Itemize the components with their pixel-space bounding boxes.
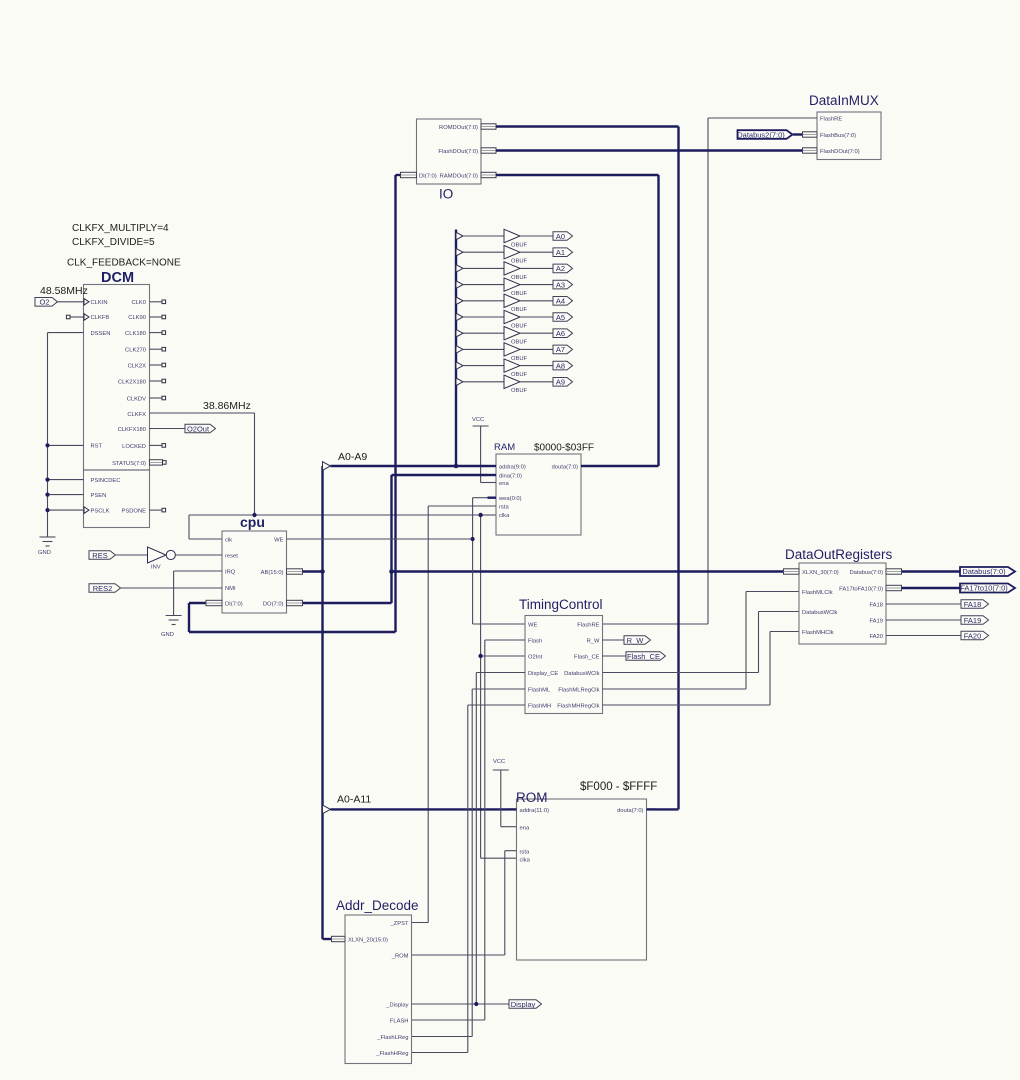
- svg-text:INV: INV: [151, 565, 161, 571]
- bus ROMDOut: ROM douta to IO: [496, 127, 679, 810]
- svg-text:ena: ena: [499, 481, 509, 487]
- svg-text:CLKDV: CLKDV: [127, 397, 146, 403]
- svg-text:OBUF: OBUF: [511, 275, 528, 281]
- svg-text:DI(7:0): DI(7:0): [225, 602, 243, 608]
- inverter INV: [148, 547, 223, 571]
- svg-text:CLK2X: CLK2X: [128, 364, 147, 370]
- svg-text:FlashMHClk: FlashMHClk: [802, 630, 834, 636]
- svg-text:CLK0: CLK0: [131, 300, 146, 306]
- svg-text:FlashDOut(7:0): FlashDOut(7:0): [438, 149, 478, 155]
- ground symbol below IRQ: [161, 616, 182, 639]
- svg-text:OBUF: OBUF: [511, 242, 528, 248]
- ROM block: [517, 799, 647, 960]
- svg-text:DatabusWClk: DatabusWClk: [802, 610, 838, 616]
- svg-text:RES2: RES2: [93, 584, 113, 593]
- net CLKFX 38.86MHz clock: [150, 413, 526, 858]
- DataOutRegisters block: [799, 563, 886, 644]
- input bus connector Databus2(7:0): [737, 130, 802, 139]
- OBUF buffer U-A1 with tap and output connector A1: [456, 246, 573, 265]
- output connector FA18: [886, 600, 989, 609]
- svg-text:addra(11:0): addra(11:0): [520, 808, 550, 814]
- svg-text:NMI: NMI: [225, 586, 236, 592]
- svg-text:XLXN_20(15:0): XLXN_20(15:0): [348, 938, 388, 944]
- RAM dina bus stub: [488, 474, 497, 476]
- svg-text:Flash: Flash: [528, 639, 542, 645]
- RAM block: [496, 454, 581, 535]
- svg-text:A4: A4: [556, 297, 565, 306]
- svg-text:Display: Display: [511, 1000, 536, 1009]
- svg-text:OBUF: OBUF: [511, 259, 528, 265]
- net FlashRE from TimingControl to DataInMUX: [603, 118, 818, 624]
- RAM douta bus stub: [581, 465, 598, 467]
- svg-text:OBUF: OBUF: [511, 356, 528, 362]
- ground symbol below DCM: [38, 537, 56, 556]
- svg-text:addra(9:0): addra(9:0): [499, 465, 526, 471]
- IO RAMDOut bus stub: [481, 172, 496, 177]
- svg-text:FLASH: FLASH: [390, 1019, 409, 1025]
- svg-text:CLKFB: CLKFB: [91, 315, 110, 321]
- junction clk net at cpu branch: [252, 513, 256, 517]
- net _Display to connector: [412, 1003, 510, 1005]
- DataInMUX FlashBus bus stub: [803, 132, 818, 137]
- DCM unconnected output stubs CLK0..CLKDV,LOCKED,PSDONE: [150, 300, 166, 512]
- svg-text:OBUF: OBUF: [511, 372, 528, 378]
- svg-text:ROM: ROM: [516, 790, 548, 805]
- svg-text:A0-A11: A0-A11: [337, 794, 371, 806]
- junction A0-A9 bus at OBUF feed: [454, 464, 459, 469]
- net Display_CE: Addr_Decode _Display to TimingControl: [476, 673, 525, 1005]
- svg-text:A9: A9: [556, 378, 565, 387]
- RAM addra bus stub: [488, 465, 497, 467]
- svg-text:PSEN: PSEN: [91, 493, 107, 499]
- OBUF buffer U-A9 with tap and output connector A9: [456, 375, 573, 394]
- svg-text:CLKFX_DIVIDE=5: CLKFX_DIVIDE=5: [72, 237, 155, 248]
- svg-text:clka: clka: [499, 513, 510, 519]
- svg-text:OBUF: OBUF: [511, 291, 528, 297]
- svg-text:FA18: FA18: [869, 603, 883, 609]
- svg-text:Databus2(7:0): Databus2(7:0): [737, 130, 785, 139]
- svg-text:PSINCDEC: PSINCDEC: [91, 478, 121, 484]
- svg-text:FA20: FA20: [964, 631, 982, 640]
- net FlashMLRegClk: TimingControl to DataOutRegisters: [603, 592, 800, 690]
- input connector RES2: [89, 584, 222, 593]
- svg-text:XLXN_30(7:0): XLXN_30(7:0): [802, 570, 839, 576]
- svg-text:ena: ena: [520, 826, 530, 832]
- svg-text:Display_CE: Display_CE: [528, 671, 558, 677]
- svg-text:WE: WE: [528, 623, 537, 629]
- svg-text:WE: WE: [274, 538, 283, 544]
- net FlashMH: Addr_Decode _FlashHReg to TimingControl: [412, 705, 526, 1053]
- svg-text:O2: O2: [39, 298, 49, 307]
- output connector Flash_CE: [603, 652, 666, 661]
- svg-text:RES: RES: [92, 551, 107, 560]
- junction on GND rail at PSINCDEC: [45, 478, 49, 482]
- svg-text:wea(0:0): wea(0:0): [498, 496, 522, 502]
- svg-text:FlashDOut(7:0): FlashDOut(7:0): [820, 149, 860, 155]
- output bus connector FA17to10(7:0): [902, 584, 1016, 593]
- OBUF buffer U-A3 with tap and output connector A3: [456, 278, 573, 297]
- net Flash: Addr_Decode FLASH to TimingControl: [412, 640, 526, 1020]
- svg-text:A7: A7: [556, 345, 565, 354]
- IO ROMDOut bus stub: [481, 124, 496, 129]
- svg-text:OBUF: OBUF: [511, 307, 528, 313]
- cpu block: [222, 531, 287, 613]
- wire DSSEN/RST/PSINCDEC/PSEN/PSCLK to GND rail: [48, 333, 84, 537]
- DCM STATUS(7:0) bus stub: [150, 460, 167, 465]
- svg-text:DataInMUX: DataInMUX: [809, 93, 879, 108]
- svg-text:Databus(7:0): Databus(7:0): [849, 570, 883, 576]
- svg-text:cpu: cpu: [240, 514, 265, 530]
- bus DO: cpu to RAM dina and DataOutRegisters: [303, 475, 785, 603]
- bus FlashDOut: IO to DataInMUX: [496, 149, 803, 151]
- svg-text:FlashRE: FlashRE: [577, 623, 599, 629]
- svg-text:38.86MHz: 38.86MHz: [203, 400, 251, 412]
- IO DI bus stub: [401, 172, 417, 177]
- net FlashML: Addr_Decode _FlashLReg to TimingControl: [412, 689, 526, 1037]
- output bus connector Databus(7:0): [902, 567, 1016, 576]
- svg-text:FA19: FA19: [964, 616, 982, 625]
- bus RAMDOut: RAM douta to IO: [496, 175, 659, 466]
- output connector Display: [509, 1000, 542, 1009]
- svg-text:LOCKED: LOCKED: [122, 444, 146, 450]
- svg-text:_Display: _Display: [385, 1003, 408, 1009]
- svg-text:48.58MHz: 48.58MHz: [40, 285, 88, 297]
- DataOutRegisters FA17toFA10 bus stub: [886, 585, 902, 590]
- svg-text:VCC: VCC: [472, 417, 484, 423]
- svg-text:A0: A0: [556, 232, 565, 241]
- VCC symbol above ROM: [493, 759, 517, 827]
- net DatabusWClk: TimingControl to DataOutRegisters: [603, 612, 800, 673]
- output connector FA20: [886, 631, 989, 640]
- svg-text:FlashMLClk: FlashMLClk: [802, 590, 833, 596]
- svg-text:rsta: rsta: [499, 505, 509, 511]
- DCM U-DCM block: [84, 285, 150, 528]
- svg-text:FA17to10(7:0): FA17to10(7:0): [960, 584, 1008, 593]
- Addr_Decode XLXN_20 bus stub: [332, 936, 346, 941]
- DataOutRegisters XLXN_30 bus stub: [784, 569, 800, 574]
- cpu DO bus stub: [287, 600, 303, 605]
- cpu DI bus stub: [206, 600, 222, 605]
- svg-text:A6: A6: [556, 329, 565, 338]
- junction WE at cpu: [471, 537, 475, 541]
- OBUF buffer U-A0 with tap and output connector A0: [456, 229, 573, 248]
- ROM douta bus stub: [647, 808, 656, 810]
- svg-text:Addr_Decode: Addr_Decode: [336, 898, 419, 913]
- DataOutRegisters Databus bus stub: [886, 569, 902, 574]
- VCC symbol above RAM: [472, 417, 496, 483]
- svg-text:A8: A8: [556, 361, 565, 370]
- svg-text:CLKFX180: CLKFX180: [118, 427, 146, 433]
- svg-text:CLKFX: CLKFX: [127, 412, 146, 418]
- cpu AB bus stub: [287, 569, 303, 574]
- OBUF buffer U-A5 with tap and output connector A5: [456, 310, 573, 329]
- junction on GND rail at PSCLK: [45, 508, 49, 512]
- svg-text:VCC: VCC: [493, 759, 505, 765]
- svg-text:clka: clka: [520, 858, 531, 864]
- svg-text:DSSEN: DSSEN: [91, 331, 111, 337]
- svg-text:STATUS(7:0): STATUS(7:0): [112, 461, 146, 467]
- bus tap A0-A9: [323, 462, 331, 471]
- svg-text:_FlashLReg: _FlashLReg: [376, 1035, 408, 1041]
- net WE: cpu, RAM wea, TimingControl: [287, 498, 526, 624]
- svg-text:rsta: rsta: [520, 850, 530, 856]
- svg-text:_FlashHReg: _FlashHReg: [375, 1051, 408, 1057]
- wire RAM rsta to Addr_Decode _ZPST: [412, 506, 497, 923]
- wire IRQ to ground: [174, 571, 222, 616]
- svg-text:OBUF: OBUF: [511, 388, 528, 394]
- svg-text:FA17toFA10(7:0): FA17toFA10(7:0): [839, 587, 883, 593]
- TimingControl block: [525, 616, 603, 714]
- bus tap A0-A11: [323, 805, 331, 814]
- svg-text:douta(7:0): douta(7:0): [617, 808, 643, 814]
- svg-text:OBUF: OBUF: [511, 323, 528, 329]
- svg-text:R_W: R_W: [627, 636, 645, 645]
- output connector FA19: [886, 616, 989, 625]
- svg-text:FA19: FA19: [869, 619, 883, 625]
- svg-text:DO(7:0): DO(7:0): [263, 602, 284, 608]
- svg-text:O2Out: O2Out: [187, 424, 210, 433]
- svg-text:clk: clk: [225, 538, 232, 544]
- svg-text:CLKFX_MULTIPLY=4: CLKFX_MULTIPLY=4: [72, 223, 169, 234]
- svg-text:O2Int: O2Int: [528, 655, 543, 661]
- svg-text:R_W: R_W: [587, 639, 600, 645]
- Addr_Decode block: [345, 915, 412, 1064]
- bus AB: cpu to taps and Addr_Decode: [303, 466, 332, 939]
- bus A0-A9 to RAM addra: [331, 465, 488, 467]
- svg-text:TimingControl: TimingControl: [519, 597, 603, 612]
- svg-text:GND: GND: [161, 632, 174, 638]
- bus A0-A11 to ROM addra: [331, 808, 509, 810]
- svg-text:RAMDOut(7:0): RAMDOut(7:0): [440, 174, 478, 180]
- OBUF buffer U-A6 with tap and output connector A6: [456, 327, 573, 346]
- svg-text:A5: A5: [556, 313, 565, 322]
- svg-text:reset: reset: [225, 554, 238, 560]
- svg-text:FlashRE: FlashRE: [820, 117, 842, 123]
- svg-text:FlashMHRegClk: FlashMHRegClk: [557, 704, 599, 710]
- svg-text:FlashMH: FlashMH: [528, 704, 551, 710]
- svg-text:FlashMLRegClk: FlashMLRegClk: [558, 688, 599, 694]
- svg-text:A3: A3: [556, 280, 565, 289]
- svg-text:Flash_CE: Flash_CE: [627, 652, 660, 661]
- svg-text:CLKIN: CLKIN: [91, 300, 108, 306]
- svg-text:dina(7:0): dina(7:0): [499, 474, 522, 480]
- svg-text:DI(7:0): DI(7:0): [419, 174, 437, 180]
- svg-text:FlashBus(7:0): FlashBus(7:0): [820, 133, 856, 139]
- svg-text:CLK90: CLK90: [128, 315, 146, 321]
- OBUF buffer U-A4 with tap and output connector A4: [456, 294, 573, 313]
- junction on GND rail at RST: [45, 443, 49, 447]
- output connector O2Out: [150, 424, 216, 433]
- junction AB at cpu: [320, 569, 325, 574]
- input connector RES: [89, 551, 148, 560]
- svg-text:GND: GND: [38, 550, 51, 556]
- svg-text:AB(15:0): AB(15:0): [261, 570, 284, 576]
- junction clk net at O2int: [478, 654, 482, 658]
- IO block: [417, 119, 482, 184]
- svg-text:Flash_CE: Flash_CE: [574, 655, 600, 661]
- svg-text:_ROM: _ROM: [391, 954, 409, 960]
- svg-text:A0-A9: A0-A9: [338, 451, 367, 463]
- OBUF buffer U-A7 with tap and output connector A7: [456, 343, 573, 362]
- svg-text:FA18: FA18: [964, 600, 982, 609]
- svg-text:FA20: FA20: [869, 634, 883, 640]
- svg-text:A2: A2: [556, 264, 565, 273]
- ROM addra bus stub: [508, 808, 517, 810]
- output connector R_W: [603, 636, 651, 645]
- OBUF address buffer column feed bus: [455, 230, 457, 467]
- svg-text:ROMDOut(7:0): ROMDOut(7:0): [439, 125, 478, 131]
- junction on GND rail at PSEN: [45, 493, 49, 497]
- svg-text:CLK180: CLK180: [125, 331, 146, 337]
- svg-text:DCM: DCM: [101, 270, 134, 286]
- svg-text:RAM: RAM: [494, 442, 515, 453]
- net _ROM: Addr_Decode to ROM rsta: [412, 851, 517, 955]
- svg-text:DataOutRegisters: DataOutRegisters: [785, 547, 893, 562]
- DCM CLKFB input stub with open square terminal: [66, 315, 83, 319]
- junction DO at DataOutRegisters branch: [389, 569, 394, 574]
- DataInMUX FlashDOut bus stub: [803, 148, 818, 153]
- svg-text:CLK_FEEDBACK=NONE: CLK_FEEDBACK=NONE: [67, 258, 181, 269]
- svg-text:OBUF: OBUF: [511, 340, 528, 346]
- OBUF buffer U-A8 with tap and output connector A8: [456, 359, 573, 378]
- svg-text:RST: RST: [91, 444, 103, 450]
- junction _Display at Display_CE branch: [474, 1002, 478, 1006]
- svg-text:A1: A1: [556, 248, 565, 257]
- svg-text:CLK2X180: CLK2X180: [118, 380, 146, 386]
- svg-text:IRQ: IRQ: [225, 570, 236, 576]
- svg-text:$F000 - $FFFF: $F000 - $FFFF: [580, 781, 657, 793]
- svg-text:_ZPST: _ZPST: [389, 921, 408, 927]
- svg-text:DatabusWClk: DatabusWClk: [564, 671, 600, 677]
- DataInMUX block: [817, 112, 881, 160]
- svg-text:douta(7:0): douta(7:0): [552, 465, 578, 471]
- net FlashMHRegClk: TimingControl to DataOutRegisters: [603, 632, 800, 706]
- RAM wea bus stub: [488, 497, 497, 499]
- bus DI: IO to cpu: [189, 175, 401, 632]
- svg-text:PSCLK: PSCLK: [91, 509, 110, 515]
- svg-text:FlashML: FlashML: [528, 688, 551, 694]
- input connector O2: [35, 298, 84, 307]
- svg-text:IO: IO: [439, 187, 453, 202]
- junction clk net at RAM clka: [478, 513, 482, 517]
- svg-text:$0000-$03FF: $0000-$03FF: [534, 443, 594, 454]
- IO FlashDOut bus stub: [481, 148, 496, 153]
- svg-text:Databus(7:0): Databus(7:0): [962, 567, 1006, 576]
- svg-text:PSDONE: PSDONE: [122, 509, 147, 515]
- OBUF buffer U-A2 with tap and output connector A2: [456, 262, 573, 281]
- svg-text:CLK270: CLK270: [125, 348, 146, 354]
